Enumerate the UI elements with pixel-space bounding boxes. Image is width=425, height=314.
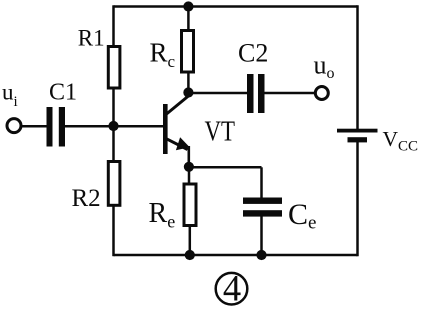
node bottom junction Re	[185, 250, 195, 260]
node top junction	[183, 1, 193, 11]
node bottom junction Ce	[256, 250, 266, 260]
wire Ce branch down	[260, 167, 263, 198]
transistor VT	[163, 91, 190, 168]
wire left column top (top rail to R1)	[112, 5, 115, 46]
wire C1 to base node	[64, 125, 114, 128]
wire right rail upper	[356, 5, 359, 130]
svg-text:Rc: Rc	[150, 37, 176, 71]
wire collector node to C2	[188, 92, 247, 95]
resistor Re	[184, 184, 196, 226]
node base junction	[108, 121, 118, 131]
capacitor C1	[47, 107, 66, 147]
wire top rail	[114, 5, 358, 8]
resistor R1	[108, 47, 120, 89]
wire bottom rail	[114, 254, 358, 257]
wire base node to transistor base	[114, 125, 165, 128]
wire emitter node to Re	[188, 167, 191, 184]
svg-text:R1: R1	[78, 26, 105, 51]
node collector junction	[183, 87, 193, 97]
resistor R2	[108, 162, 120, 206]
svg-text:4: 4	[223, 268, 241, 309]
wire C2 to output terminal	[264, 92, 315, 95]
battery VCC long plate	[337, 129, 378, 133]
wire input to C1	[21, 125, 47, 128]
svg-text:C2: C2	[238, 39, 268, 68]
svg-text:VT: VT	[205, 116, 236, 148]
terminal u_o	[315, 87, 328, 100]
svg-text:ui: ui	[2, 80, 18, 110]
svg-text:VCC: VCC	[383, 127, 419, 155]
node emitter junction	[184, 162, 194, 172]
wire Ce to bottom rail	[260, 216, 263, 255]
wire R1 to base node to R2	[112, 88, 115, 161]
svg-text:uo: uo	[314, 51, 335, 83]
capacitor Ce	[243, 198, 282, 217]
resistor Rc	[182, 31, 194, 73]
capacitor C2	[247, 74, 265, 113]
svg-text:Re: Re	[149, 198, 176, 232]
wire Rc to collector node	[187, 72, 190, 93]
svg-text:Ce: Ce	[288, 198, 316, 234]
wire Re to bottom rail	[189, 225, 192, 255]
svg-text:C1: C1	[49, 80, 77, 106]
wire top rail to Rc	[187, 7, 190, 31]
wire right rail lower	[356, 140, 359, 256]
terminal u_i	[7, 119, 21, 133]
battery VCC short plate	[348, 137, 368, 142]
circled figure number 4	[216, 268, 248, 309]
svg-text:R2: R2	[72, 185, 101, 212]
wire R2 to bottom rail	[112, 206, 115, 256]
wire emitter node to Ce branch	[189, 166, 262, 169]
